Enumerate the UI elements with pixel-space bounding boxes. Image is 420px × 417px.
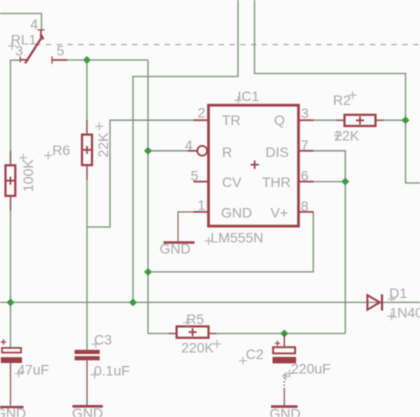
- pin 8 V+ stub: [299, 211, 314, 213]
- junction node left cap: [7, 298, 15, 306]
- resistor 100K body: [6, 165, 16, 196]
- capacitor C2 (polarized): [271, 334, 298, 407]
- wire DIS pin7 net: [309, 151, 346, 334]
- origin cross 47uF: [15, 370, 23, 378]
- wire 100K bottom to 47uF cap: [10, 196, 12, 348]
- wire THR pin6 net: [309, 181, 346, 183]
- svg-text:LM555N: LM555N: [211, 229, 264, 245]
- svg-text:1: 1: [198, 197, 206, 213]
- svg-text:V+: V+: [271, 204, 289, 220]
- svg-text:3: 3: [301, 105, 309, 121]
- svg-text:1N400: 1N400: [390, 304, 420, 320]
- svg-text:C3: C3: [94, 331, 112, 347]
- pin 4 R stub with bubble: [188, 150, 197, 152]
- junction node RL1/R6: [83, 56, 91, 64]
- junction node V+ pin8: [144, 268, 152, 276]
- diode D1: [367, 294, 382, 310]
- svg-text:8: 8: [301, 198, 309, 214]
- pin 7 DIS stub: [299, 150, 314, 152]
- svg-text:THR: THR: [262, 174, 291, 190]
- wire R5 left lead: [148, 333, 177, 335]
- svg-text:TR: TR: [222, 112, 241, 128]
- wire Q pin3 to R2: [313, 119, 345, 121]
- svg-text:0.1uF: 0.1uF: [94, 363, 130, 379]
- origin cross GND C2: [282, 372, 290, 380]
- relay contact RL1: [20, 30, 67, 64]
- origin cross R5: [183, 319, 191, 327]
- svg-text:6: 6: [301, 168, 309, 184]
- svg-text:GND: GND: [160, 240, 191, 256]
- wire to RL1 pin 4: [0, 14, 42, 30]
- svg-text:100K: 100K: [20, 159, 36, 192]
- origin cross IC1: [234, 96, 242, 104]
- origin cross LM555N: [205, 237, 213, 245]
- svg-text:R: R: [222, 144, 232, 160]
- dashed sheet boundary line: [35, 44, 420, 46]
- wire net A from top to right edge: [255, 0, 420, 183]
- ground symbol at IC1 pin1: [164, 212, 195, 243]
- wire net B from top: [133, 0, 238, 302]
- origin cross D1: [388, 295, 396, 303]
- resistor R6 pin stubs: [86, 120, 88, 180]
- svg-text:2: 2: [198, 105, 206, 121]
- pin 3 Q stub: [299, 119, 314, 121]
- svg-text:CV: CV: [222, 174, 242, 190]
- svg-text:3: 3: [15, 43, 23, 59]
- capacitor C3: [73, 350, 103, 407]
- svg-text:4: 4: [30, 16, 38, 32]
- svg-text:22K: 22K: [95, 132, 111, 158]
- resistor R5 body: [177, 326, 209, 337]
- wire to reset pin 4: [148, 150, 188, 152]
- wire R2 to right vertical: [376, 119, 406, 121]
- origin cross C3: [92, 340, 100, 348]
- origin cross 1N400: [387, 312, 395, 320]
- junction node net B bottom: [129, 298, 137, 306]
- svg-text:DIS: DIS: [266, 144, 289, 160]
- junction node C2 top: [280, 330, 288, 338]
- svg-text:R6: R6: [52, 142, 70, 158]
- origin cross 220uF: [286, 369, 294, 377]
- svg-text:5: 5: [191, 168, 199, 184]
- origin cross 0.1uF: [91, 371, 99, 379]
- origin cross R6: [44, 151, 52, 159]
- svg-text:5: 5: [57, 43, 65, 59]
- origin cross 220K: [213, 340, 221, 348]
- svg-text:47uF: 47uF: [17, 362, 49, 378]
- svg-text:GND: GND: [72, 405, 103, 417]
- wire to R6 top: [86, 60, 88, 135]
- svg-text:4: 4: [185, 137, 193, 153]
- junction node DIS/THR: [341, 178, 349, 186]
- svg-text:Q: Q: [274, 112, 285, 128]
- origin cross R2: [349, 91, 357, 99]
- resistor R6 body: [82, 135, 92, 166]
- svg-text:220uF: 220uF: [291, 361, 331, 377]
- junction node reset pin: [144, 147, 152, 155]
- pin 6 THR stub: [299, 181, 314, 183]
- svg-text:IC1: IC1: [238, 88, 260, 104]
- resistor R5 pin stubs: [169, 333, 217, 335]
- svg-text:220K: 220K: [181, 339, 214, 355]
- wire RL1 pin5 to net V+: [67, 59, 148, 61]
- junction node R2 right: [402, 116, 410, 124]
- wire R6 bottom to C3: [86, 165, 88, 350]
- resistor R2 pin stubs: [337, 119, 384, 121]
- IC1 center cross: [251, 161, 259, 169]
- svg-text:7: 7: [301, 137, 309, 153]
- pin 1 GND stub: [194, 211, 209, 213]
- origin cross 22K R2: [334, 132, 342, 140]
- origin cross C2: [239, 357, 247, 365]
- pin 2 TR stub: [194, 119, 209, 121]
- svg-text:GND: GND: [0, 405, 26, 417]
- origin cross 22K R6: [95, 122, 103, 130]
- svg-text:GND: GND: [270, 406, 301, 417]
- origin cross 100K: [19, 154, 27, 162]
- pin 5 CV stub: [194, 181, 209, 183]
- op IC1 LM555N box: [209, 105, 299, 226]
- origin cross RL1: [8, 42, 16, 50]
- svg-text:C2: C2: [246, 346, 264, 362]
- wire RL1 pin3 to 100K resistor: [11, 60, 21, 165]
- svg-text:R2: R2: [333, 92, 351, 108]
- wire V+ to pin 8: [148, 212, 313, 272]
- resistor 100K pin stubs: [10, 151, 12, 211]
- svg-text:R5: R5: [186, 311, 204, 327]
- wire V+ vertical: [147, 60, 149, 334]
- wire bottom ground-row left: [0, 301, 420, 303]
- svg-text:GND: GND: [221, 204, 252, 220]
- wire trigger pin 2 net: [87, 120, 194, 227]
- resistor R2 body: [345, 115, 376, 126]
- wire R5 right to C2 node: [209, 333, 346, 335]
- capacitor 47uF (polarized): [0, 339, 24, 407]
